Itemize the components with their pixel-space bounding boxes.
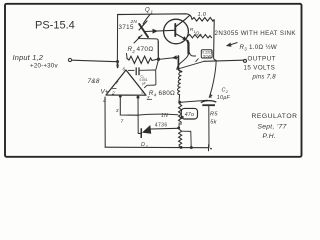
svg-text:50W: 50W [203, 54, 211, 58]
svg-text:680Ω: 680Ω [159, 90, 176, 97]
junction: inverting input node on op-amp base [137, 96, 140, 99]
diode D1 1N4736 [138, 113, 178, 149]
svg-text:P.H.: P.H. [263, 133, 277, 140]
junction: input node [116, 60, 119, 63]
svg-text:7: 7 [121, 119, 124, 125]
resistor R3 1.0 ohm [192, 12, 214, 21]
svg-text:7&8: 7&8 [88, 78, 100, 85]
wire: emitter bar lower stub [178, 56, 181, 72]
wire: Q2 emitter lead [188, 41, 189, 54]
svg-text:Sept, ’77: Sept, ’77 [258, 123, 287, 130]
svg-text:Q: Q [145, 8, 150, 14]
label: R3 value annotation with arrow [226, 43, 277, 52]
junction: pin jog node [119, 95, 122, 98]
potentiometer R5 5k [179, 112, 219, 148]
junction: R2 right node [157, 58, 160, 61]
svg-text:REGULATOR: REGULATOR [252, 113, 298, 120]
svg-text:V+: V+ [101, 89, 109, 96]
transistor Q2 2N3055 [164, 16, 190, 44]
svg-text:7: 7 [116, 80, 119, 85]
svg-text:47o: 47o [185, 112, 194, 118]
junction: divider tap node [178, 101, 181, 104]
capacitor C2 10uF [201, 61, 231, 148]
svg-text:+20-+30v: +20-+30v [30, 62, 58, 69]
frame (decorative) [5, 4, 302, 157]
svg-text:1.0: 1.0 [198, 12, 207, 18]
wire: tap wire to divider [137, 114, 178, 115]
junction: divider/D1 node [177, 127, 180, 130]
resistor R2 470 ohm [127, 46, 157, 63]
wire: V+ rail vertical [116, 15, 119, 69]
wire: R3 right end down [214, 20, 216, 60]
wire: bottom rail [105, 145, 212, 151]
svg-text:OUTPUT: OUTPUT [248, 56, 276, 63]
wire: Q1 base down to R2 node [138, 37, 158, 58]
wire: input lead [68, 58, 116, 61]
wire: divider tap to C2 [181, 100, 208, 102]
capacitor C1 (compensation) with loop wire [128, 67, 156, 87]
svg-text:2N3055 WITH HEAT SINK: 2N3055 WITH HEAT SINK [215, 30, 297, 37]
svg-text:470Ω: 470Ω [137, 46, 154, 53]
label: REGULATOR Sept '77 P.H. [252, 113, 298, 140]
op-amp U1 [101, 67, 153, 105]
label: title PS-15.4 [35, 20, 75, 32]
resistor: 470 ohm (boxed value) [179, 104, 198, 125]
wire: inverting input down to D1 [137, 96, 139, 134]
wire: output line [204, 59, 247, 62]
svg-text:3: 3 [116, 108, 119, 114]
svg-text:R5: R5 [210, 112, 218, 118]
wire: R2 node to emitter bar [160, 57, 178, 59]
svg-text:5k: 5k [210, 119, 217, 125]
svg-text:4736: 4736 [155, 122, 168, 128]
wire: emitter node diagonals to divider top [177, 53, 204, 69]
svg-text:2: 2 [111, 91, 115, 97]
svg-text:10µF: 10µF [217, 95, 231, 101]
svg-text:3: 3 [141, 90, 144, 96]
svg-text:1.0Ω ½W: 1.0Ω ½W [249, 44, 277, 51]
wire: pin jog below op-amp (pins 3,7) [116, 96, 137, 125]
svg-text:Input 1,2: Input 1,2 [13, 53, 44, 62]
svg-text:3715: 3715 [119, 24, 135, 31]
label: output annotation [244, 56, 277, 81]
wire: top rail (collector bus) [118, 14, 192, 19]
wire: R2 node riser [157, 41, 159, 58]
svg-text:1N: 1N [161, 113, 168, 119]
transistor Q1 2N3715 [119, 8, 154, 44]
node: input terminal pins 1,2 (+20 to +30 V) [13, 53, 59, 69]
svg-text:µF: µF [142, 81, 146, 85]
resistor R1 (emitter zigzag) [188, 27, 212, 38]
svg-text:pins 7,8: pins 7,8 [252, 75, 277, 81]
svg-text:PS-15.4: PS-15.4 [35, 20, 75, 32]
wire: Q1 emitter arrow to Q2 base [145, 29, 175, 34]
resistor: 0.22 ohm 50W (boxed) [190, 50, 213, 62]
wire: op-amp pin 4 down to bottom rail [104, 97, 106, 147]
resistor R4 680 ohm [149, 72, 182, 102]
svg-text:15 VOLTS: 15 VOLTS [244, 65, 276, 72]
svg-text:2: 2 [131, 49, 135, 54]
